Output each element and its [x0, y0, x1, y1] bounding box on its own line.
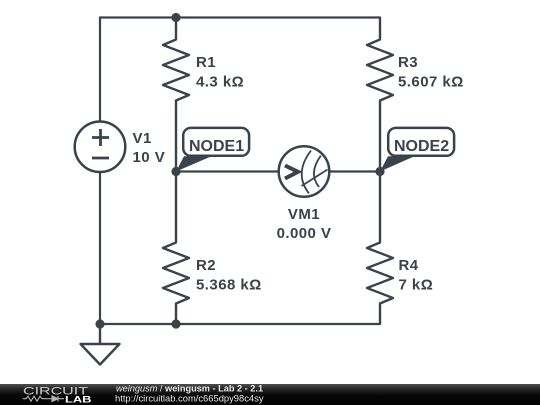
- voltage source V1: [75, 121, 126, 172]
- svg-text:10 V: 10 V: [133, 149, 166, 166]
- svg-text:VM1: VM1: [288, 206, 320, 223]
- junction dot NODE2: [375, 167, 384, 176]
- ground: [81, 324, 120, 365]
- wire left rail upper: [99, 18, 101, 122]
- resistor R1: [163, 18, 189, 172]
- svg-text:5.368 kΩ: 5.368 kΩ: [196, 276, 262, 293]
- svg-text:R2: R2: [196, 257, 216, 274]
- wire voltmeter to node2: [330, 170, 381, 172]
- wire left rail lower: [99, 172, 101, 324]
- node NODE2 callout: [380, 128, 454, 172]
- R1 value label: [196, 54, 244, 90]
- svg-text:5.607 kΩ: 5.607 kΩ: [398, 73, 464, 90]
- node NODE1 callout: [176, 128, 249, 172]
- resistor R4: [367, 172, 393, 325]
- CircuitLab logo resistor-diode symbol: [23, 396, 64, 402]
- R2 value label: [196, 257, 262, 293]
- R3 value label: [398, 54, 464, 90]
- resistor R3: [367, 18, 393, 172]
- svg-text:LAB: LAB: [65, 395, 92, 405]
- footer bar: [0, 384, 540, 405]
- junction dot bottom middle: [171, 319, 180, 328]
- svg-text:NODE1: NODE1: [189, 138, 244, 155]
- wire node1 to voltmeter: [176, 170, 279, 172]
- VM1 value label: [277, 206, 332, 242]
- svg-text:NODE2: NODE2: [394, 138, 449, 155]
- voltmeter VM1: [279, 146, 330, 197]
- junction dot top middle: [171, 13, 180, 22]
- svg-text:http://circuitlab.com/c665dpy9: http://circuitlab.com/c665dpy98c4sy: [115, 392, 264, 403]
- junction dot bottom left: [95, 319, 104, 328]
- R4 value label: [399, 257, 434, 293]
- wire top horizontal: [100, 16, 380, 18]
- resistor R2: [163, 172, 189, 325]
- svg-text:V1: V1: [133, 130, 152, 147]
- svg-text:R1: R1: [196, 54, 216, 71]
- svg-text:R3: R3: [398, 54, 418, 71]
- svg-text:4.3 kΩ: 4.3 kΩ: [196, 73, 244, 90]
- junction dot NODE1: [171, 167, 180, 176]
- svg-text:R4: R4: [399, 257, 419, 274]
- svg-text:0.000 V: 0.000 V: [277, 225, 332, 242]
- wire bottom horizontal: [100, 323, 380, 325]
- V1 value label: [133, 130, 166, 166]
- svg-text:7 kΩ: 7 kΩ: [399, 276, 434, 293]
